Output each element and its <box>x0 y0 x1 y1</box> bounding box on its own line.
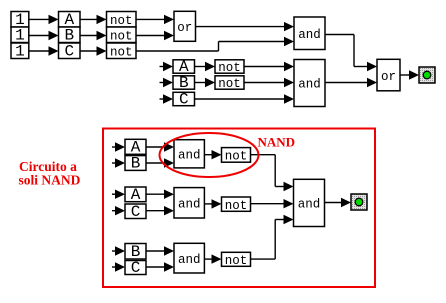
svg-text:not: not <box>225 199 248 213</box>
svg-text:C: C <box>131 203 141 221</box>
svg-text:and: and <box>298 78 321 92</box>
label: Circuito a soli NAND <box>19 159 81 188</box>
wire final AND to LED2 <box>325 198 352 207</box>
inverter NOT5 <box>215 76 244 91</box>
input stub arrow C (group 2) <box>112 206 125 215</box>
svg-text:not: not <box>110 29 133 43</box>
svg-text:A: A <box>131 186 141 204</box>
wire NOT(g1) to final AND (stepped down) <box>251 155 294 192</box>
wire NOT4 to AND2 <box>244 62 294 71</box>
and-gate AND (group 3) <box>174 243 204 273</box>
input box B (group 3) <box>125 243 146 261</box>
wire C to NOT <box>80 46 107 55</box>
NAND highlight ellipse <box>160 133 259 177</box>
wire NOT(g2) to final AND <box>251 199 294 208</box>
wire AND to NOT (group 2) <box>204 199 221 208</box>
input stub arrow A (group 2) <box>112 190 125 199</box>
input stub arrow B (group 3) <box>112 246 125 255</box>
output indicator LED2 <box>351 194 367 210</box>
input constant 1 (IN3) <box>11 42 29 60</box>
wire AND1 to OR2 (stepped) <box>325 35 377 72</box>
svg-text:and: and <box>298 28 321 42</box>
inverter NOT2 <box>107 27 137 43</box>
svg-text:C: C <box>179 91 189 109</box>
input box A (column 2) <box>173 58 195 76</box>
inverter NOT (group 2) <box>222 197 251 213</box>
svg-text:not: not <box>110 14 133 28</box>
wire NOT1 to OR1 <box>136 15 174 24</box>
wire AND2 to OR2 <box>325 78 377 87</box>
wire IN1 to letter box <box>29 15 59 24</box>
input stub arrow A (group 1) <box>112 142 125 151</box>
wire AND to NOT (group 3) <box>204 254 221 263</box>
wire B (col2) to NOT5 <box>195 78 216 87</box>
wire IN2 to letter box <box>29 31 59 40</box>
inverter NOT (group 3) <box>222 252 251 268</box>
input stub arrow C (column 2) <box>160 94 174 103</box>
and-gate AND (group 2) <box>174 188 204 218</box>
svg-text:not: not <box>225 150 248 164</box>
input stub arrow C (group 3) <box>112 262 125 271</box>
input box A (group 2) <box>125 186 146 204</box>
output indicator LED1 <box>419 67 435 83</box>
wire OR2 to LED1 <box>400 70 419 79</box>
input stub arrow B (column 2) <box>160 78 174 87</box>
wire OR1 to AND1 <box>196 22 295 31</box>
wire A (col2) to NOT4 <box>195 62 216 71</box>
wire NOT3 to AND1 (stepped) <box>136 37 294 51</box>
wire C (col2) to AND2 <box>195 94 295 103</box>
NAND circuit frame (red box) <box>103 129 375 288</box>
svg-text:not: not <box>225 254 248 268</box>
or-gate OR2 <box>377 59 400 91</box>
wire NOT2 to OR1 <box>136 31 174 40</box>
svg-text:not: not <box>110 45 133 59</box>
svg-text:C: C <box>131 259 141 277</box>
input box B (column 2) <box>173 74 195 92</box>
input box C (group 2) <box>125 203 146 221</box>
input box A (column 1) <box>59 11 81 29</box>
svg-text:NAND: NAND <box>258 135 296 150</box>
wire NOT5 to AND2 <box>244 78 294 87</box>
svg-text:soli NAND: soli NAND <box>19 173 81 188</box>
input box A (group 1) <box>125 138 146 156</box>
wire A to NOT <box>80 15 107 24</box>
input box B (group 1) <box>125 155 146 173</box>
input box C (group 3) <box>125 259 146 277</box>
input stub arrow A (column 2) <box>160 62 174 71</box>
wire C to AND (group 2) <box>146 206 174 215</box>
and-gate AND final <box>294 179 325 226</box>
input stub arrow B (group 1) <box>112 158 125 167</box>
inverter NOT (group 1) <box>222 148 251 164</box>
wire IN3 to letter box <box>29 46 59 55</box>
input box C (column 1) <box>59 42 81 60</box>
svg-text:1: 1 <box>15 42 25 60</box>
svg-text:B: B <box>179 74 189 92</box>
svg-text:and: and <box>298 198 321 212</box>
wire AND to NOT (group 1) <box>204 150 221 159</box>
wire A to AND (group 2) <box>146 190 174 199</box>
svg-text:or: or <box>177 21 192 35</box>
svg-text:not: not <box>218 61 241 75</box>
inverter NOT4 <box>215 60 244 75</box>
input box B (column 1) <box>59 26 81 44</box>
svg-text:and: and <box>178 253 201 267</box>
wire B to AND (group 1) <box>146 158 174 167</box>
wire C to AND (group 3) <box>146 262 174 271</box>
label: NAND <box>258 135 296 150</box>
svg-text:not: not <box>218 77 241 91</box>
wire A to AND (group 1) <box>146 142 174 151</box>
svg-text:and: and <box>178 149 201 163</box>
input box C (column 2) <box>173 91 195 109</box>
and-gate AND1 <box>294 17 325 50</box>
and-gate AND (group 1) <box>174 140 204 168</box>
svg-text:and: and <box>178 198 201 212</box>
wire B to AND (group 3) <box>146 246 174 255</box>
svg-text:B: B <box>131 155 141 173</box>
wire NOT(g3) to final AND (stepped up) <box>251 215 294 259</box>
inverter NOT3 <box>107 43 137 59</box>
or-gate OR1 <box>174 11 196 41</box>
wire B to NOT <box>80 31 107 40</box>
and-gate AND2 <box>294 60 325 107</box>
svg-text:or: or <box>381 70 396 84</box>
input constant 1 (IN1) <box>11 11 29 29</box>
inverter NOT1 <box>107 12 137 28</box>
svg-text:C: C <box>64 42 74 60</box>
input constant 1 (IN2) <box>11 26 29 44</box>
